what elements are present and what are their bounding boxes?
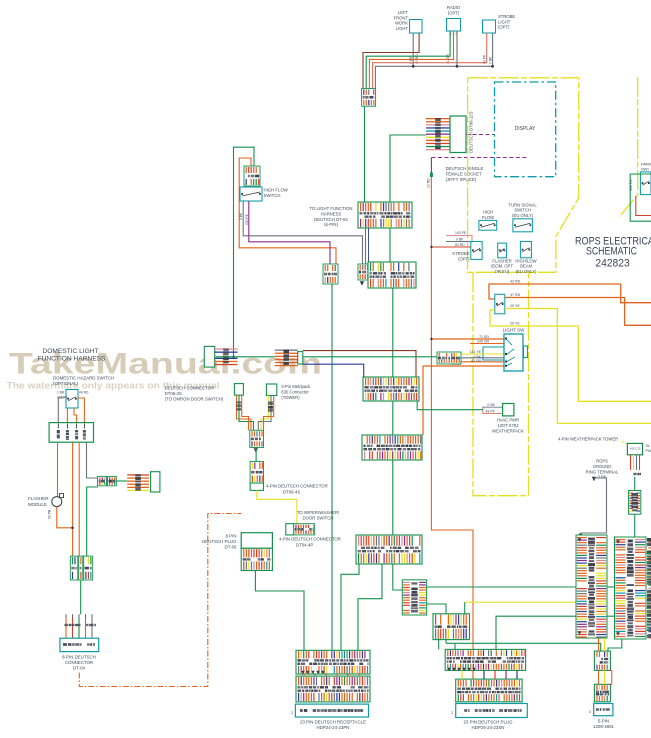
svg-text:HIGH: HIGH bbox=[483, 210, 493, 215]
wire 29 YE upper bbox=[505, 309, 651, 424]
park sw green loop bbox=[630, 174, 651, 221]
svg-text:3: 3 bbox=[589, 710, 591, 714]
svg-text:0 BK: 0 BK bbox=[239, 212, 243, 220]
wire green TB1-TB2 lower bbox=[607, 615, 615, 617]
wire 143 PE to strobe bbox=[446, 236, 472, 242]
wire green SC_A down bbox=[87, 487, 98, 556]
light sw side tab bbox=[524, 346, 528, 358]
Va wires down bbox=[237, 395, 252, 430]
wire salmon bus strobe pin1 bbox=[373, 33, 487, 89]
svg-text:DT06-3S: DT06-3S bbox=[165, 391, 182, 396]
wire 43 PK stub hvac bbox=[483, 410, 503, 414]
svg-text:(OPT): (OPT) bbox=[498, 25, 510, 30]
svg-text:8 PIN: 8 PIN bbox=[226, 534, 237, 539]
svg-text:HDP24-24-23PN: HDP24-24-23PN bbox=[317, 725, 350, 730]
connector HB2 bbox=[368, 262, 416, 288]
connector SC_LS bbox=[437, 352, 461, 364]
wire green to 8pin DT-04 bbox=[80, 580, 82, 614]
svg-text:(OPT): (OPT) bbox=[458, 256, 470, 261]
wire TB1 bottom to 5-pin bbox=[598, 638, 600, 651]
wire hazard orange 2 bbox=[74, 408, 77, 423]
svg-text:220 PE: 220 PE bbox=[245, 213, 249, 225]
wire flasher to junction bbox=[57, 507, 73, 528]
svg-text:SL: SL bbox=[646, 444, 651, 448]
wire green HB5 left A bbox=[341, 564, 359, 650]
wire green VC1 lower to bus bbox=[427, 604, 446, 643]
wire navy P2 to HB3 bbox=[303, 364, 364, 377]
connector TB2 bbox=[615, 537, 647, 639]
svg-text:DOMESTIC LIGHT: DOMESTIC LIGHT bbox=[42, 348, 98, 355]
junction dots on gray bus bbox=[412, 65, 415, 68]
svg-text:LEFT: LEFT bbox=[398, 10, 409, 15]
radio box bbox=[447, 19, 461, 32]
wire green TB1 lower to plug bbox=[496, 616, 576, 649]
wire orange bus radio pin2 bbox=[369, 31, 453, 89]
svg-text:4-PIN DEUTSCH CONNECTOR: 4-PIN DEUTSCH CONNECTOR bbox=[279, 537, 341, 542]
svg-text:141 YE: 141 YE bbox=[470, 350, 482, 354]
flasher module circle bbox=[52, 497, 62, 507]
svg-text:42 OR: 42 OR bbox=[471, 359, 482, 363]
wire purple drop jiffy splice bbox=[430, 158, 432, 173]
svg-text:31B PU: 31B PU bbox=[629, 179, 633, 191]
yellow boundary polygon bbox=[468, 78, 579, 272]
connector HB3 bbox=[363, 377, 419, 401]
strobe box bbox=[471, 242, 482, 260]
wire brown P2 to HB3 bbox=[303, 351, 416, 377]
connector SV1 bbox=[629, 491, 641, 515]
svg-text:ROPS: ROPS bbox=[596, 459, 608, 464]
svg-text:(JIFFY SPLICE): (JIFFY SPLICE) bbox=[446, 177, 477, 182]
wire 71 RD to light sw bbox=[431, 338, 504, 340]
svg-text:STROBE: STROBE bbox=[498, 14, 515, 19]
wire 5-pin interconnect bbox=[598, 670, 600, 684]
svg-text:SCHEMATIC: SCHEMATIC bbox=[586, 246, 637, 258]
svg-text:DT-06: DT-06 bbox=[225, 545, 238, 550]
wire 84 RD to strobe bbox=[431, 246, 470, 248]
wire gray bus bbox=[375, 33, 492, 89]
wire 220 PE purple high flow bbox=[249, 201, 330, 264]
svg-text:(EU ONLY): (EU ONLY) bbox=[516, 269, 537, 274]
rops ground wire bbox=[592, 477, 596, 481]
aux switch box bbox=[495, 294, 505, 314]
ground arrow splice bbox=[360, 281, 364, 285]
wire 10 RD orange long vertical bbox=[431, 177, 473, 649]
23-pin plug row2 bbox=[456, 679, 522, 702]
arrows under receptacle row1 bbox=[301, 671, 304, 674]
connector above high flow switch bbox=[244, 166, 260, 186]
svg-text:29 YE: 29 YE bbox=[510, 322, 520, 326]
svg-text:(6-PIN): (6-PIN) bbox=[324, 222, 338, 227]
svg-text:HARNESS: HARNESS bbox=[321, 211, 342, 216]
svg-text:12DT-S792: 12DT-S792 bbox=[497, 423, 519, 428]
svg-text:143 PE: 143 PE bbox=[455, 231, 467, 235]
8 pin plug stripes bbox=[241, 548, 272, 570]
svg-text:43 PK: 43 PK bbox=[485, 410, 495, 414]
yellow boundary lower rectangle bbox=[473, 272, 529, 495]
connector P1 wires bbox=[215, 348, 238, 365]
svg-text:HIGH FLOW: HIGH FLOW bbox=[264, 188, 289, 193]
wire 47 RD bbox=[505, 298, 651, 326]
23-pin receptacle interconnect stubs bbox=[303, 674, 305, 676]
svg-text:5-PIN: 5-PIN bbox=[598, 719, 609, 724]
svg-text:FEMALE SOCKET: FEMALE SOCKET bbox=[446, 172, 482, 177]
wire green HB2 to HB3 bbox=[392, 288, 394, 377]
wire green TB1-TB2 upper bbox=[607, 586, 615, 588]
wire green loop high flow bbox=[234, 147, 255, 357]
teal loop light sw bbox=[483, 347, 504, 360]
svg-text:TO WIPER/WASHER/: TO WIPER/WASHER/ bbox=[297, 510, 340, 515]
connector P1 plug body bbox=[204, 346, 214, 367]
svg-text:4-PIN WEATHERPACK TOWER: 4-PIN WEATHERPACK TOWER bbox=[558, 437, 618, 442]
wire 5-pin red loop bbox=[609, 670, 612, 684]
svg-text:WEATHERPACK: WEATHERPACK bbox=[492, 428, 524, 433]
wire purple dash to display bbox=[466, 134, 495, 136]
high low beam box bbox=[520, 242, 531, 258]
wire hazard gray bbox=[58, 397, 66, 423]
wire 71 RD lower to light sw bbox=[423, 365, 504, 367]
svg-text:WORK: WORK bbox=[395, 21, 408, 26]
wire green P2 to light switch connector bbox=[303, 356, 437, 358]
8 pin plug body bbox=[241, 533, 272, 549]
flasher dom box bbox=[498, 243, 507, 258]
wire 40 RD from work light to brown bus bbox=[363, 33, 419, 89]
svg-text:FUNCTION HARNESS: FUNCTION HARNESS bbox=[38, 355, 106, 362]
5-pin row2 bbox=[594, 684, 610, 702]
connector small row left bbox=[70, 556, 78, 580]
svg-text:RADIO: RADIO bbox=[447, 5, 461, 10]
splice connector below HB1 bbox=[358, 264, 370, 280]
23-pin plug row1 bbox=[445, 649, 525, 670]
svg-text:LIGHT: LIGHT bbox=[498, 19, 511, 24]
wire green SC_M to receptacle bbox=[331, 284, 333, 650]
connector P2 wires bbox=[275, 350, 298, 367]
5-pin shell bbox=[594, 704, 613, 716]
connector SC_A pair bbox=[98, 476, 107, 485]
svg-text:1 BR: 1 BR bbox=[57, 391, 65, 395]
svg-text:DT-04: DT-04 bbox=[73, 666, 86, 671]
svg-text:(OPT): (OPT) bbox=[448, 10, 460, 15]
weatherpack stub wires bbox=[630, 455, 632, 470]
Vb wires down bbox=[261, 396, 268, 431]
svg-text:SWI: SWI bbox=[641, 167, 649, 172]
wire green SC_A to SC_B bbox=[116, 480, 127, 482]
connector DT06-12S plug body bbox=[450, 116, 466, 153]
svg-text:0 BK: 0 BK bbox=[456, 237, 464, 241]
svg-text:2: 2 bbox=[291, 711, 293, 715]
svg-text:630 Connector: 630 Connector bbox=[281, 390, 309, 395]
svg-text:DEUTSCH PLUG: DEUTSCH PLUG bbox=[202, 539, 237, 544]
svg-text:DEUTSCH DT-04: DEUTSCH DT-04 bbox=[314, 217, 348, 222]
svg-text:40 PK: 40 PK bbox=[483, 54, 487, 64]
connector HB6 bbox=[433, 614, 470, 640]
svg-text:RING TERMINAL: RING TERMINAL bbox=[586, 469, 619, 474]
svg-text:8-PIN DEUTSCH: 8-PIN DEUTSCH bbox=[62, 655, 96, 660]
wire 71 RD drop to HB4 bbox=[422, 366, 424, 435]
svg-text:TO LIGHT FUNCTION: TO LIGHT FUNCTION bbox=[309, 206, 352, 211]
wire green HB5 to VC1 bbox=[393, 564, 403, 590]
svg-text:23 PIN DEUTSCH PLUG: 23 PIN DEUTSCH PLUG bbox=[463, 719, 513, 724]
svg-text:HVAC PWR: HVAC PWR bbox=[497, 418, 519, 423]
yellow boundary right segment bbox=[619, 77, 638, 217]
svg-text:DEUTSCH SINGLE: DEUTSCH SINGLE bbox=[446, 166, 484, 171]
svg-text:3-Pin Metripack: 3-Pin Metripack bbox=[281, 384, 311, 389]
svg-text:42 RD: 42 RD bbox=[510, 280, 521, 284]
wire green bus radio pin1 bbox=[366, 31, 450, 89]
wire green HB5 left B bbox=[358, 564, 382, 650]
svg-text:47 RD: 47 RD bbox=[510, 293, 521, 297]
wire hazard orange 3 bbox=[78, 398, 84, 423]
junction dot green loop bbox=[232, 356, 234, 358]
svg-text:DOOR SWITCH: DOOR SWITCH bbox=[302, 516, 333, 521]
wire green DT06-12S to harness bbox=[390, 135, 426, 262]
wire 0 BK stub hvac bbox=[483, 407, 503, 410]
svg-text:FRONT: FRONT bbox=[394, 15, 409, 20]
svg-text:4-PIN DEUTSCH CONNECTOR: 4-PIN DEUTSCH CONNECTOR bbox=[266, 484, 328, 489]
svg-text:40 RD: 40 RD bbox=[79, 391, 89, 395]
wire green TC1 to harness connector bbox=[364, 106, 366, 202]
wire green HB3 to HB4 bbox=[392, 401, 394, 435]
display box bbox=[495, 82, 556, 177]
svg-text:2: 2 bbox=[451, 711, 453, 715]
wire purple dash lower bbox=[431, 157, 528, 159]
23-pin receptacle shell bbox=[295, 704, 368, 717]
wire 29 YE lower bbox=[490, 310, 651, 401]
svg-text:29 YE: 29 YE bbox=[510, 304, 520, 308]
wire green stub into plug bbox=[454, 643, 456, 649]
svg-text:A B C D: A B C D bbox=[630, 447, 642, 451]
connector TB1 bbox=[576, 535, 607, 638]
svg-text:1208-4891: 1208-4891 bbox=[593, 724, 615, 729]
svg-text:23 PIN DEUTSCH RECEPTACLE: 23 PIN DEUTSCH RECEPTACLE bbox=[300, 719, 366, 724]
park sw red wire bbox=[636, 196, 651, 216]
wire 0 BK to strobe bbox=[446, 241, 471, 243]
svg-text:FLOW: FLOW bbox=[482, 215, 494, 220]
Vb label smudge bbox=[268, 402, 273, 412]
park sw box bbox=[640, 172, 651, 195]
5-pin row1 bbox=[594, 651, 610, 670]
wire orange high flow top bbox=[239, 158, 336, 264]
wire green SC_Y to SC_Z bbox=[255, 448, 257, 462]
wire yellow SC_Z to DT04-4P bbox=[257, 490, 297, 523]
svg-text:FLASHER: FLASHER bbox=[28, 496, 48, 501]
svg-text:53 PB: 53 PB bbox=[48, 509, 52, 519]
wire hazard orange 1 bbox=[66, 408, 68, 423]
connector HB4 bbox=[362, 435, 422, 460]
connector DT04-4P bbox=[286, 524, 294, 535]
svg-text:10 RD: 10 RD bbox=[427, 178, 431, 188]
turn signal switch box bbox=[513, 219, 533, 232]
connector VC1 bbox=[402, 580, 426, 615]
svg-text:0 BK: 0 BK bbox=[489, 56, 493, 64]
svg-text:HDP26-24-23SN: HDP26-24-23SN bbox=[472, 725, 505, 730]
high flow switch box bbox=[240, 187, 262, 201]
wire radio pin3 to gray bus bbox=[456, 31, 458, 66]
svg-text:84 RD: 84 RD bbox=[455, 243, 465, 247]
wire 42 OR to light sw bbox=[461, 361, 504, 363]
wire green TB2 bottom bbox=[608, 639, 622, 651]
svg-text:(OPTIONAL): (OPTIONAL) bbox=[53, 381, 79, 386]
wire green SV1 to TB2 bbox=[634, 514, 636, 537]
svg-text:0 BK: 0 BK bbox=[597, 475, 606, 480]
high flow right box bbox=[479, 220, 497, 230]
relay box bbox=[49, 423, 93, 443]
arrows under plug row1 bbox=[447, 668, 450, 671]
wire relay gray D bbox=[87, 442, 98, 478]
23-pin receptacle row1 bbox=[296, 650, 370, 674]
wire 140 OR to light sw bbox=[470, 343, 504, 345]
wire 141 YE to light sw bbox=[461, 353, 504, 355]
svg-text:71 RD: 71 RD bbox=[479, 335, 489, 339]
Va label smudge bbox=[236, 402, 241, 411]
orange dash-dot route bbox=[79, 514, 241, 687]
connector SC_Y bbox=[250, 430, 264, 447]
svg-text:DEUTSCH DT06-12S: DEUTSCH DT06-12S bbox=[469, 111, 474, 153]
wire relay orange A bbox=[57, 442, 59, 496]
strobe light box bbox=[483, 20, 496, 33]
wire green weatherpack to SV1 bbox=[634, 477, 636, 491]
svg-text:STROBE: STROBE bbox=[452, 251, 469, 256]
svg-text:CONNECTOR: CONNECTOR bbox=[65, 660, 93, 665]
connector P2 plug body bbox=[298, 352, 303, 364]
wire 0 BK from work light bbox=[412, 33, 414, 66]
wire green HB3 to hvac bbox=[417, 401, 483, 410]
wire green HB4 to HB5 bbox=[392, 460, 394, 535]
wire green TB2 right bbox=[646, 552, 651, 554]
svg-text:LIGHT: LIGHT bbox=[396, 26, 409, 31]
wire green HB6 to plug bbox=[438, 638, 440, 649]
wire 0 BK to light sw bbox=[461, 357, 504, 359]
svg-text:LIGHT SW: LIGHT SW bbox=[503, 328, 525, 333]
svg-text:140 OR: 140 OR bbox=[477, 340, 490, 344]
wire green P1 to P2 bbox=[216, 356, 275, 358]
wire 42 RD bbox=[489, 284, 651, 303]
svg-text:(TOWER): (TOWER) bbox=[281, 395, 300, 400]
wire green bus to 5-pin bbox=[446, 643, 601, 651]
svg-text:0 BK: 0 BK bbox=[487, 403, 495, 407]
svg-text:DEUTSCH CONNECTOR: DEUTSCH CONNECTOR bbox=[165, 386, 215, 391]
23-pin receptacle row2 bbox=[296, 676, 370, 702]
svg-text:OR EU): OR EU) bbox=[495, 269, 510, 274]
left front work light box bbox=[410, 20, 423, 34]
hazard switch box bbox=[66, 390, 78, 409]
connector DT06-12S wire bundle bbox=[426, 118, 450, 150]
ground arrow SC_Y bbox=[254, 448, 258, 452]
connector Vb body bbox=[266, 384, 276, 396]
connector Va body bbox=[234, 384, 243, 396]
wire green 8pin plug to receptacle bbox=[255, 571, 304, 651]
svg-text:242823: 242823 bbox=[595, 258, 629, 270]
wire yellow TB1 to HB6 bbox=[465, 601, 576, 603]
svg-text:PW: PW bbox=[646, 449, 651, 453]
wire green drop into HB6 bbox=[464, 602, 466, 614]
wire gray HB1 to splice bbox=[365, 228, 367, 264]
svg-text:(TO OMRON DOOR SWITCH): (TO OMRON DOOR SWITCH) bbox=[165, 397, 224, 402]
23-pin plug shell bbox=[456, 704, 528, 718]
wire relay orange C bbox=[78, 442, 80, 556]
svg-text:GROUND: GROUND bbox=[593, 464, 612, 469]
svg-text:MODULE: MODULE bbox=[28, 502, 47, 507]
svg-text:DT04-4P: DT04-4P bbox=[296, 543, 313, 548]
hvac pwr weatherpack box bbox=[503, 404, 514, 416]
8-pin DT-04 pin stubs bbox=[65, 618, 67, 638]
8-pin DT-04 box bbox=[60, 638, 99, 651]
svg-text:DISPLAY: DISPLAY bbox=[515, 126, 536, 132]
weatherpack box bbox=[627, 443, 642, 454]
connector SC_M bbox=[323, 264, 338, 284]
23-pin plug interconnect stubs bbox=[461, 670, 463, 679]
wire 0 BK high flow down bbox=[243, 201, 362, 264]
svg-text:(EU ONLY): (EU ONLY) bbox=[512, 213, 533, 218]
connector HB1 light function harness bbox=[358, 202, 412, 228]
light sw box bbox=[504, 334, 523, 371]
dash to weatherpack bbox=[622, 442, 627, 445]
connector TB3 sliver bbox=[649, 541, 651, 638]
svg-text:DT06-4S: DT06-4S bbox=[283, 490, 300, 495]
connector TC1 top splice bbox=[362, 89, 376, 107]
svg-text:DOMESTIC HAZARD SWITCH: DOMESTIC HAZARD SWITCH bbox=[53, 376, 114, 381]
connector HB5 bbox=[356, 535, 422, 564]
jiffy splice green mark bbox=[430, 173, 433, 178]
svg-text:SWITCH: SWITCH bbox=[264, 193, 281, 198]
connector SC_B bbox=[127, 474, 149, 491]
connector SC_Z bbox=[250, 461, 263, 483]
wire relay orange B bbox=[72, 442, 74, 556]
wire green VC1 to TB1 upper bbox=[427, 586, 576, 588]
